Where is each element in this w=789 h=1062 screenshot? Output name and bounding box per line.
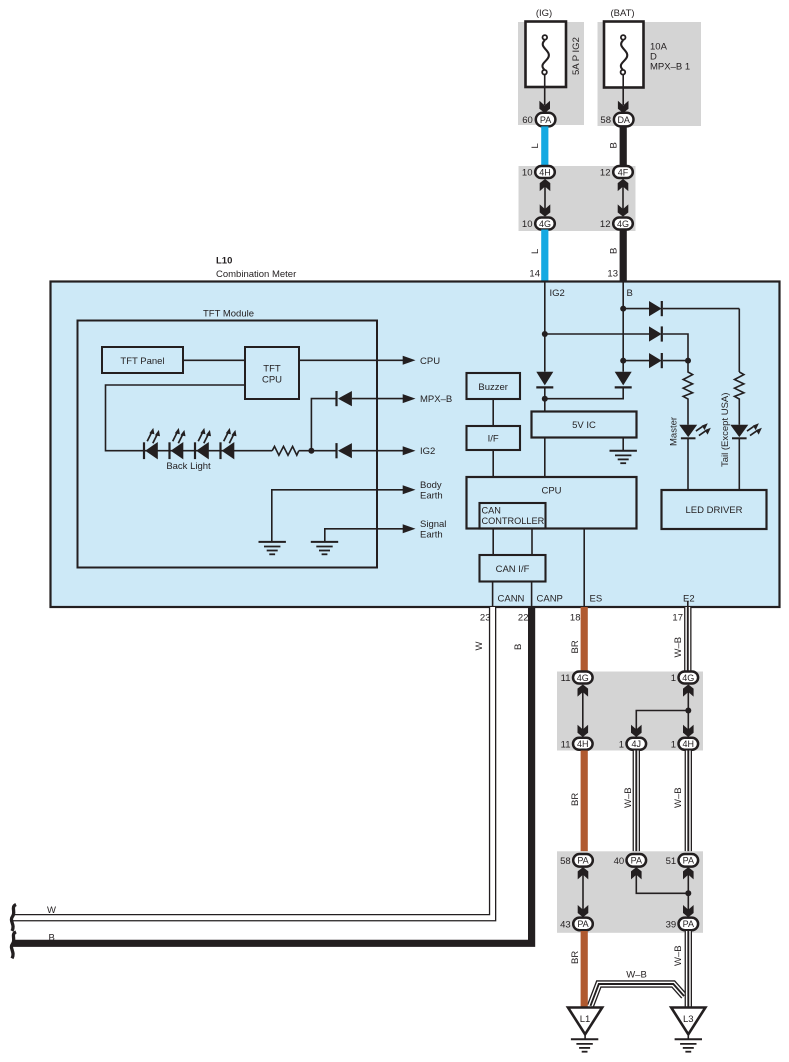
LED back light 3 [195,428,211,460]
connector 12 4G [600,218,633,231]
wire diode outputs to 5V IC [545,387,623,411]
wire BR ES to 4G [581,607,588,672]
svg-text:W–B: W–B [673,945,684,966]
svg-text:12: 12 [600,219,611,230]
wire resistor to IG2 diode [299,450,337,452]
svg-text:B: B [608,248,619,254]
svg-text:11: 11 [561,739,571,750]
wire CAN controller to CAN I/F left [492,529,494,556]
label Signal Earth [420,519,446,541]
wire master LED to LED driver [687,438,689,490]
svg-text:Earth: Earth [420,530,443,541]
wire tail LED to LED driver [738,438,740,490]
pin stub E2 [687,602,689,607]
5V IC block [532,412,637,438]
svg-text:B: B [627,288,633,299]
junction wire 4G to 4H/4J right [631,685,693,737]
svg-text:1: 1 [671,739,676,750]
LED DRIVER block [662,490,767,529]
diode D4 IG2 big [536,372,553,388]
wire CANN to pin 23 [492,582,494,607]
wire junction to MPX-B diode [311,399,336,451]
svg-text:Earth: Earth [420,491,443,502]
ground signal earth [311,542,338,554]
diode D1 B to tail branch [623,301,739,316]
fuse F1 5A P IG2 [526,22,567,88]
svg-text:4G: 4G [617,219,629,229]
svg-text:4H: 4H [683,739,695,749]
CAN I/F block [480,555,546,582]
svg-text:PA: PA [631,856,642,866]
svg-text:TFT Panel: TFT Panel [120,356,164,367]
svg-text:BR: BR [570,951,581,964]
I/F block [467,426,521,450]
svg-text:22: 22 [518,613,529,624]
junction wire 58 PA to 43 PA [578,868,588,917]
connector 43 PA [560,918,593,931]
svg-text:W: W [474,642,485,651]
svg-text:10: 10 [522,219,533,230]
connector 1 4J [619,738,646,751]
connector 40 PA [614,854,646,867]
svg-text:4H: 4H [577,739,589,749]
connector 1 4G [671,672,698,685]
CPU block [467,477,637,529]
connector 58 DA [600,113,633,127]
svg-text:L10: L10 [216,256,232,267]
svg-text:Body: Body [420,480,442,491]
svg-text:Tail (Except USA): Tail (Except USA) [720,393,731,467]
diode D2 IG2 to master branch [545,326,688,360]
svg-text:CAN: CAN [482,506,501,516]
junction wire 4F to 4G [618,179,628,216]
svg-text:11: 11 [561,673,571,684]
off-page squiggle W [11,905,16,932]
svg-text:58: 58 [600,115,611,126]
svg-text:14: 14 [529,269,540,280]
svg-text:4G: 4G [539,219,551,229]
junction block shading (BAT fuse) [598,22,702,126]
svg-text:18: 18 [570,613,581,624]
junction block shading (IG fuse) [518,22,584,125]
connector block shading 4H/4F-4G [519,166,636,231]
wire TFT CPU to back light LED chain [106,385,246,451]
svg-text:Back Light: Back Light [166,461,211,472]
LED back light 1 [144,428,160,460]
wire 5V IC to ground [622,438,624,451]
svg-text:CANN: CANN [498,594,525,605]
TFT CPU block [245,347,299,399]
wire TFT Panel to TFT CPU [183,359,245,361]
svg-text:17: 17 [672,613,683,624]
svg-text:43: 43 [560,919,571,930]
svg-text:40: 40 [614,856,625,867]
svg-text:51: 51 [666,856,677,867]
wire BR 4H to PA [581,751,588,852]
connector 11 4G [561,672,593,685]
connector 60 PA [522,113,555,127]
resistor tail [735,372,744,425]
svg-text:CANP: CANP [537,594,563,605]
svg-text:10: 10 [522,168,533,179]
svg-text:W–B: W–B [673,787,684,808]
svg-text:E2: E2 [683,594,695,605]
ground point L1 [568,1008,602,1052]
wire MPX-B diode to MPX-B arrow [352,394,416,403]
svg-text:(IG): (IG) [536,8,552,19]
svg-text:Master: Master [669,417,680,446]
svg-text:TFT Module: TFT Module [203,309,254,320]
wire W-B E2 to 4G [684,607,691,672]
svg-text:LED DRIVER: LED DRIVER [685,505,742,516]
connector 12 4F [600,166,633,179]
svg-text:MPX–B: MPX–B [420,394,452,405]
svg-text:BR: BR [570,793,581,806]
label Body Earth [420,480,443,502]
svg-text:BR: BR [570,640,581,653]
wire B (black) DA to 4F [620,126,627,167]
svg-text:Combination Meter: Combination Meter [216,269,296,280]
svg-text:IG2: IG2 [420,446,435,457]
svg-text:4J: 4J [632,739,642,749]
svg-text:13: 13 [607,269,618,280]
connector 11 4H [561,738,593,751]
svg-text:ES: ES [590,594,603,605]
wire CAN controller to CAN I/F right [531,529,533,556]
svg-text:CAN I/F: CAN I/F [496,564,530,575]
svg-text:L1: L1 [580,1014,591,1025]
diode MPX-B input [337,391,352,406]
svg-text:B: B [49,933,55,944]
svg-text:W–B: W–B [673,637,684,658]
LED tail [730,423,762,438]
wire L (blue) PA to 4H [541,126,548,167]
wire W-B PA to ground L3 [685,931,692,1008]
node 5V feed junction [542,396,548,402]
connector block shading PA [557,851,703,933]
svg-text:B: B [608,142,619,148]
node B rail junction upper [620,306,626,312]
wire 5V IC to CPU [544,438,546,478]
fuse F2 value label 10A D MPX-B 1 [650,42,690,73]
wire B CANP to off-page [12,607,532,943]
wire body earth [272,485,416,541]
svg-text:5V IC: 5V IC [572,420,596,431]
diode IG2 input [337,443,352,458]
wire W-B 4J to PA [633,751,640,852]
LED back light 4 [221,428,237,460]
svg-text:Signal: Signal [420,519,446,530]
wire IG2 rail [544,283,546,372]
wire CANP to pin 22 [531,582,533,607]
ground point L3 [671,1008,705,1052]
connector 51 PA [666,854,698,867]
wire tail branch down [738,309,740,372]
resistor master [683,361,692,425]
TFT Panel block [102,347,183,373]
node IG2 rail junction [542,331,548,337]
wire W-B 4H to PA [685,751,692,852]
node master branch junction [685,358,691,364]
combination meter L10 box [51,282,780,608]
wire signal earth [325,524,416,541]
connector 1 4H [671,738,698,751]
svg-text:4G: 4G [577,673,589,683]
svg-text:W–B: W–B [623,787,634,808]
CAN CONTROLLER block [480,503,546,529]
svg-text:MPX–B 1: MPX–B 1 [650,62,690,73]
svg-text:CPU: CPU [541,486,561,497]
svg-text:W: W [47,905,56,916]
svg-text:L: L [530,143,541,148]
svg-text:IG2: IG2 [550,288,565,299]
node B rail junction lower [620,358,626,364]
LED master [679,423,711,438]
svg-text:PA: PA [683,856,694,866]
svg-text:4F: 4F [618,167,629,177]
TFT Module box [78,321,378,568]
svg-text:TFT: TFT [263,364,281,375]
svg-text:PA: PA [540,115,551,125]
svg-text:12: 12 [600,168,611,179]
connector 10 4H [522,166,555,179]
junction wire 51 PA to 40 PA and 39 PA [631,868,693,917]
svg-text:1: 1 [619,739,624,750]
wire W-B branch to ground L1 [591,984,685,1006]
svg-text:CPU: CPU [262,375,282,386]
svg-text:PA: PA [577,919,588,929]
connector 58 PA [560,854,593,867]
wire I/F to CPU [492,450,494,477]
LED back light 2 [170,428,186,460]
wire W CANN to off-page [12,607,493,918]
svg-text:PA: PA [683,919,694,929]
wire L (blue) 4G to pin 14 [541,230,548,282]
wire fuse F2 to connector DA [618,75,628,113]
off-page squiggle B [11,932,16,959]
svg-text:4H: 4H [539,167,551,177]
ground 5V IC [610,451,637,463]
wire BR PA to ground L1 [581,931,588,1008]
junction wire 4H to 4G [540,179,550,216]
svg-text:PA: PA [577,856,588,866]
svg-text:L: L [530,249,541,254]
diode D5 B big [615,372,632,388]
svg-text:DA: DA [617,115,630,125]
svg-text:5A P IG2: 5A P IG2 [571,37,582,75]
wire fuse F1 to connector PA [540,75,550,113]
wire back light LED row [142,450,272,452]
svg-text:58: 58 [560,856,571,867]
wire ES CPU to pin 18 [583,529,585,607]
ground body earth [259,542,286,554]
svg-text:L3: L3 [683,1014,694,1025]
connector 10 4G [522,218,555,231]
wire IG2 diode to IG2 arrow [352,446,416,455]
Buzzer block [467,373,521,399]
svg-text:39: 39 [666,919,677,930]
wire TFT CPU to CPU output arrow [299,356,416,365]
svg-text:60: 60 [522,115,533,126]
wire buzzer to I/F [492,399,494,426]
resistor back light [272,446,299,455]
svg-text:Buzzer: Buzzer [478,382,508,393]
svg-text:B: B [513,644,524,650]
diode D3 B to master branch [623,353,688,368]
junction wire 4G to 4H left [578,685,588,737]
connector 39 PA [666,918,698,931]
svg-text:CONTROLLER: CONTROLLER [482,516,545,526]
connector block shading 4G-4H/4J [557,672,703,751]
fuse F2 10A D MPX-B 1 [604,22,644,88]
svg-text:4G: 4G [682,673,694,683]
svg-text:CPU: CPU [420,356,440,367]
svg-text:1: 1 [671,673,676,684]
svg-text:W–B: W–B [626,970,647,981]
wire B rail [622,283,624,372]
wire B (black) 4G to pin 13 [620,230,627,282]
svg-text:I/F: I/F [488,434,499,445]
svg-text:(BAT): (BAT) [610,8,634,19]
node back light junction [308,448,314,454]
